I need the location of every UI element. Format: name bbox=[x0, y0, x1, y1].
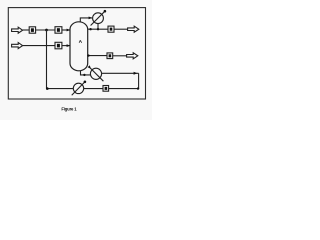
valve V5 bbox=[108, 26, 114, 32]
recycle riser wire (down left side) bbox=[47, 30, 74, 89]
wire V4 to product arrow bbox=[113, 55, 127, 57]
arrowhead on P1 outlet bbox=[134, 72, 138, 75]
column bottom outlet wire into pump P1 bbox=[81, 71, 92, 75]
wire V6 to right corner, up to pump P1 outlet bbox=[109, 73, 139, 88]
product arrow B (hollow, points right) bbox=[127, 53, 138, 59]
wire V3 into column bbox=[62, 45, 70, 47]
arrowhead into condenser bbox=[89, 17, 93, 20]
arrowhead into column (feed 2) bbox=[67, 44, 71, 47]
column A (vessel) bbox=[70, 22, 88, 71]
junction dot below condenser bbox=[97, 28, 99, 30]
product arrow D (hollow, points right) bbox=[128, 26, 139, 32]
pump P2 (circle, recycle line) bbox=[73, 83, 83, 93]
outer border frame bbox=[8, 8, 145, 99]
junction dot at column edge bbox=[89, 28, 91, 30]
feed arrow F1 (hollow, points right) bbox=[12, 27, 23, 33]
wire F2 to valve V3 bbox=[23, 45, 55, 47]
wire F1 to valve V1 bbox=[23, 29, 30, 31]
junction dot at recycle corner bbox=[46, 87, 49, 90]
valve V3 bbox=[55, 42, 62, 49]
wire V1 to valve V2 bbox=[36, 29, 55, 31]
pump P1 outlet wire bbox=[101, 72, 138, 74]
svg-text:Figure 1: Figure 1 bbox=[61, 106, 77, 111]
overhead product wire bbox=[88, 28, 108, 30]
valve V2 bbox=[55, 27, 62, 34]
svg-text:A: A bbox=[79, 39, 83, 45]
arrowhead on pump P1 diagonal bbox=[88, 65, 91, 68]
feed arrow F2 (hollow, points right) bbox=[12, 43, 23, 49]
junction dot (recycle joins feed 1) bbox=[45, 29, 48, 32]
wire V2 into column bbox=[62, 29, 70, 31]
junction dot on pump inlet bbox=[83, 74, 85, 76]
valve V4 bbox=[107, 53, 113, 59]
junction dot at right corner bbox=[137, 87, 139, 89]
wire V5 to product arrow bbox=[114, 28, 128, 30]
arrowhead into column (feed 1) bbox=[67, 29, 71, 32]
overhead riser wire bbox=[80, 18, 92, 22]
valve V1 bbox=[29, 27, 35, 33]
wire P2 to valve V6 bbox=[84, 88, 103, 90]
valve V6 bbox=[103, 86, 109, 92]
junction dot on bottoms wire bbox=[87, 54, 89, 56]
bottoms wire from column bbox=[88, 55, 107, 57]
condenser outlet wire bbox=[97, 24, 99, 30]
pump P1 (circle, bottoms) bbox=[90, 68, 101, 79]
condenser C1 (circle, overhead) bbox=[93, 13, 104, 24]
